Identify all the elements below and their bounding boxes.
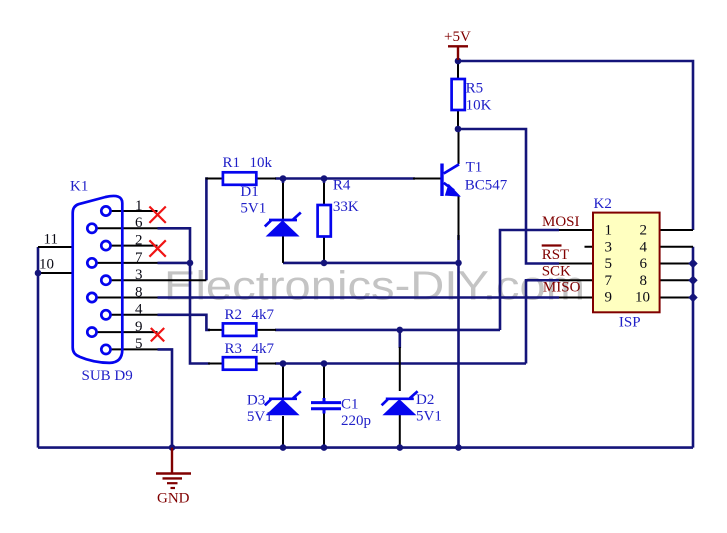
node junction +5V rail [455,58,462,65]
wire pin C1 top [323,364,325,402]
svg-text:T1: T1 [466,160,483,176]
svg-text:MISO: MISO [543,279,581,295]
no-connect X pin1 [149,207,165,223]
wire stub DB9 pin2 [111,245,158,247]
resistor R1 [223,172,256,185]
svg-text:33K: 33K [333,199,359,215]
zener diode D2 [382,391,418,415]
svg-text:5: 5 [135,336,143,352]
wire pin R5 bottom [457,110,459,129]
resistor R3 [223,357,256,370]
wire emitter vertical to bus [457,235,460,448]
wire pin C1 bottom [323,410,325,448]
svg-text:K1: K1 [70,179,88,195]
svg-text:SUB D9: SUB D9 [82,368,133,384]
transistor T1 [442,164,461,197]
svg-text:+5V: +5V [444,29,471,45]
wire pin D2 bottom [399,407,401,448]
wire R3 row right [275,362,526,365]
wire pin T1 collector [458,129,460,164]
svg-text:6: 6 [640,256,648,272]
svg-text:3: 3 [135,267,143,283]
svg-text:MOSI: MOSI [542,214,580,230]
wire pin R4 bottom [323,237,325,263]
wire stub K2 pin6 [660,263,693,265]
K1 pin circle 3 [101,276,110,285]
capacitor C1 [311,398,341,414]
svg-text:D2: D2 [416,392,434,408]
wire stub K2 pin2 [660,229,693,231]
wire stub K2 pin1 [559,229,593,231]
node junction R3/D3 [280,360,287,367]
svg-text:1: 1 [135,198,143,214]
resistor R4 [318,205,331,237]
wire MOSI vertical [500,230,559,330]
wire pin T1 base [413,178,441,180]
svg-text:8: 8 [135,284,143,300]
ground [156,448,191,507]
node junction below R5 [455,126,462,133]
svg-text:9: 9 [135,319,143,335]
svg-text:10: 10 [635,290,650,306]
wire pin6 down to R3 [158,228,211,363]
node junction R4 bottom [321,260,328,267]
wire pin7 to junction [158,262,191,265]
wire pin R5 top [457,61,459,79]
svg-text:7: 7 [135,250,143,266]
wire stub K1 pin11 [38,246,73,248]
wire pin D3 top [282,364,284,400]
svg-text:D3: D3 [247,393,265,409]
K1 pin circle 4 [101,310,110,319]
connector K1 SUB D9 body [73,196,123,363]
wire pin5 down to gnd bus [158,349,173,447]
node junction bus C1 [321,444,328,451]
K1 pin circle 8 [87,293,96,302]
svg-text:ISP: ISP [619,315,641,331]
node junction K2 pin10 [688,293,697,302]
wire stub K2 pin5 [559,263,593,265]
wire stub K2 pin3 [585,246,594,248]
node junction K2 pin8 [688,276,697,285]
svg-text:7: 7 [605,273,613,289]
svg-text:5V1: 5V1 [247,409,273,425]
K1 pin circle 1 [101,206,110,215]
node junction bus emitter [455,444,462,451]
svg-text:1: 1 [605,223,613,239]
K1 pin circle 6 [87,224,96,233]
svg-text:8: 8 [640,273,648,289]
svg-text:SCK: SCK [542,263,571,279]
wire stub K2 pin9 [559,297,593,299]
node junction R3/C1 [321,360,328,367]
svg-text:BC547: BC547 [465,178,508,194]
wire right lower vertical [692,247,695,448]
connector K2 ISP box [593,213,660,313]
svg-text:10K: 10K [466,97,492,113]
wire pin D2 top [398,330,401,348]
svg-text:5V1: 5V1 [240,200,266,216]
wire pin T1 emitter [458,196,460,240]
node junction bus D2 [397,444,404,451]
power +5V [444,29,471,60]
svg-text:10: 10 [39,257,54,273]
wire stub K2 pin7 [559,279,593,281]
wire R1 left vertical to pin3 [206,179,208,281]
svg-text:D1: D1 [240,184,258,200]
svg-text:C1: C1 [341,397,359,413]
K1 pin circle 2 [101,241,110,250]
node junction R1/R4 [321,175,328,182]
svg-text:5V1: 5V1 [416,409,442,425]
node junction bus GND [169,444,176,451]
node junction R2/D2 [397,327,404,334]
resistor R5 [452,79,465,110]
svg-text:9: 9 [605,290,613,306]
wire stub DB9 pin6 [97,227,158,229]
wire SCK vertical to R3 [526,280,559,363]
svg-text:RST: RST [542,247,570,263]
svg-text:Electronics-DIY.com: Electronics-DIY.com [164,263,585,309]
svg-text:6: 6 [135,215,143,231]
svg-text:R5: R5 [466,81,484,97]
wire stub K2 pin4 [660,246,693,248]
no-connect X pin9 [151,328,164,341]
wire MISO long row [158,296,560,299]
svg-text:2: 2 [640,223,648,239]
wire pin D1 top [282,182,284,220]
wire below R5 to RST vertical [458,129,559,264]
wire stub K2 pin10 [660,297,693,299]
no-connect X pin2 [149,240,165,256]
node junction pin6/pin7 [187,260,194,267]
wire +5V top rail [458,61,693,230]
svg-text:3: 3 [605,239,613,255]
wire pin D1 bottom [282,234,284,263]
wire left bus vertical [37,247,40,448]
wire stub DB9 pin8 [97,297,158,299]
node junction K2 pin6 [688,259,697,268]
wire stub K2 pin8 [660,279,693,281]
wire stub DB9 pin4 [111,314,158,316]
wire R1 row right to base [275,177,415,180]
K1 pin circle 5 [101,345,110,354]
svg-text:2: 2 [135,233,143,249]
svg-text:K2: K2 [594,196,612,212]
wire stub K1 pin10 [38,272,73,274]
K1 pin circle 7 [87,258,96,267]
svg-text:R4: R4 [333,177,351,193]
zener diode D3 [265,391,301,415]
svg-text:4: 4 [640,239,648,255]
node junction emitter row [455,260,462,267]
wire gnd bottom bus [38,446,693,449]
resistor R2 [223,323,256,336]
wire emitter row D1 bottom [283,262,459,265]
node junction pin10 wire [35,270,42,277]
wire pin R1 right [256,178,276,180]
svg-text:220p: 220p [341,413,371,429]
K1 pin circle 9 [87,328,96,337]
zener diode D1 [265,213,301,237]
wire stub DB9 pin1 [111,210,158,212]
svg-text:11: 11 [44,232,58,248]
wire R2 row right to MOSI vertical [275,329,500,332]
svg-text:GND: GND [157,491,190,507]
svg-text:4: 4 [135,302,143,318]
svg-text:5: 5 [605,256,613,272]
node junction bus D3 [280,444,287,451]
wire pin R4 top [323,182,325,205]
wire stub DB9 pin5 [111,348,158,350]
wire pin4 to R2 [158,315,211,330]
wire stub DB9 pin7 [97,262,158,264]
wire stub DB9 pin9 [97,331,158,333]
wire pin D3 bottom [282,416,284,448]
wire stub DB9 pin3 [111,279,207,281]
node junction R1/D1 [280,175,287,182]
